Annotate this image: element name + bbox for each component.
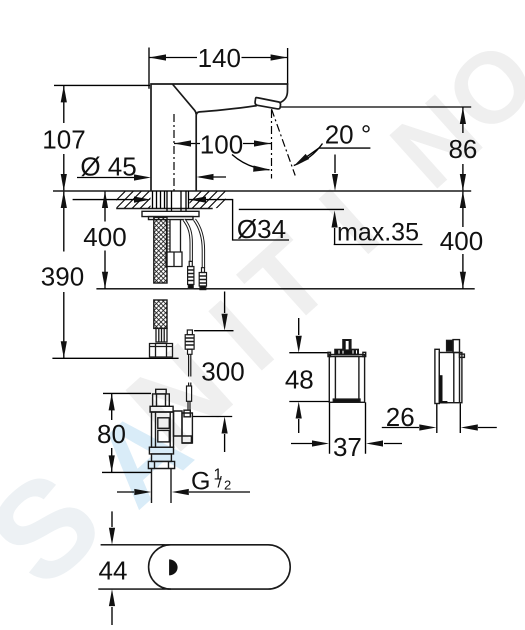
dimension 107 line [63,85,65,191]
20deg arc arrowheads [253,166,270,173]
faucet body centerline [173,114,175,191]
dimension 48 arrow lines [298,318,300,433]
dimension 80 bottom reference line [102,471,152,473]
dimension 26 arrow tails [382,427,497,429]
dimension 44 top reference line [101,544,171,546]
20deg angle arc right [294,144,323,166]
shank mounting nut [166,252,182,267]
svg-text:20 °: 20 ° [325,119,372,149]
dimension 400 left line [104,191,106,289]
dimension 37 arrow tails [291,443,402,445]
svg-text:26: 26 [386,402,415,432]
400 right arrows [460,191,466,208]
80 arrows [109,393,115,410]
svg-text:86: 86 [448,134,477,164]
Ø34 arrows [134,197,151,203]
G1/2 arrows [134,489,151,495]
control box 2 side view [435,340,465,404]
svg-text:400: 400 [440,226,483,256]
svg-text:80: 80 [97,419,126,449]
braided supply hose lower [154,300,167,328]
20deg underline and leader [297,148,370,164]
dimension 26 extension lines [437,404,461,434]
dimension 48 bottom reference line [289,401,330,403]
svg-text:48: 48 [285,365,314,395]
sensor cable with connector (300mm) [185,330,194,410]
dimension 80 line [111,393,113,472]
shank and hoses through deck hole [153,191,189,211]
label G 1/2 [191,467,231,496]
svg-text:Ø 45: Ø 45 [80,152,136,182]
svg-text:2: 2 [224,477,231,492]
svg-text:G: G [191,467,210,495]
dimension 48 top reference line [289,352,330,354]
solenoid valve assembly [148,389,192,503]
valve bottom nut [148,461,174,468]
dimension 400 right line [462,191,464,289]
G1/2 pipe [152,469,172,504]
faucet outline [151,84,288,191]
dimension 44 arrow lines [111,511,113,625]
deck / countertop [53,191,471,209]
dimension Ø34 arrow tails [73,200,289,240]
spout height reference line [281,106,472,108]
100 arrows [174,140,191,146]
dimension texts [41,43,483,586]
max.35 underline and arrow tail [334,228,423,245]
braided supply hose upper [150,217,173,357]
dimension 390 line [63,191,65,358]
valve body [152,412,174,447]
dimension 100 line [174,143,271,145]
deck hatching right [184,191,234,209]
centerlines dash-dot [174,109,295,191]
dimension 300 top reference line [194,330,233,332]
dimension 140 extension lines [149,48,288,89]
dimension 300 bottom reference line [192,416,233,418]
cable connector 1 [188,261,194,288]
G1/2 arrow tails [117,491,250,493]
valve top flange [150,406,173,412]
dimension Ø45 leader left [77,177,136,179]
arrowheads [61,54,478,606]
cable 1 [184,220,191,262]
washer plate under deck [142,211,199,219]
dimension 390 bottom reference line [52,357,178,359]
dimension 400 bottom reference line [96,288,474,290]
hose end fitting [150,328,173,357]
svg-text:300: 300 [201,357,244,387]
390 arrows [61,191,67,208]
svg-text:Ø34: Ø34 [237,214,286,244]
dimension 80 top reference line [103,392,151,394]
svg-text:/: / [218,475,223,492]
dimension 44 bottom reference line [98,588,171,590]
44 arrows [109,528,115,545]
valve bottom flange [149,447,173,454]
20deg angle arc left [232,155,270,170]
cable connector 2 [199,268,206,290]
spout nozzle [255,97,280,108]
37 arrows [312,440,329,446]
svg-text:107: 107 [42,125,85,155]
control box 1 front view [328,340,366,403]
deck top line [53,190,471,192]
svg-text:140: 140 [198,43,241,73]
dimension 107 top reference line [54,84,150,86]
deck bottom line [116,208,213,210]
faucet spout underside [196,106,257,191]
threaded shank below washer [166,220,182,267]
solenoid housing [174,411,183,436]
svg-text:max.35: max.35 [337,219,419,247]
sensor window dot [169,559,178,575]
dimension Ø45 leader right [199,176,226,178]
hose end nut [150,344,173,358]
max.35 deck bottom extension [239,208,344,210]
400 left arrows [102,191,108,208]
max.35 arrows [332,174,338,191]
svg-text:44: 44 [99,556,128,586]
26 arrows [419,424,436,430]
electrical cables below deck [184,220,203,268]
svg-text:100: 100 [200,130,243,160]
deck hatching left [108,191,166,209]
faucet neck diagonal [172,84,196,115]
48 arrows [296,336,302,353]
dimension 86 line [462,107,464,191]
107 arrows [61,85,67,102]
dimension 300 arrow lines [224,292,226,453]
86 arrows [460,107,466,124]
base plate top view (stadium) [149,545,291,589]
cable 2 [195,220,204,268]
20deg leader arrowhead [292,154,309,169]
svg-text:390: 390 [41,262,84,292]
Ø45 arrows [134,174,151,180]
300 arrows [222,314,228,331]
140 arrows [149,54,166,60]
svg-text:37: 37 [333,432,362,462]
dimension 37 extension lines [330,402,366,453]
faucet body [151,84,288,191]
nozzle 20deg angled centerline [272,109,296,176]
valve top fitting [156,389,167,394]
dimension 140 line [149,57,288,59]
svg-text:400: 400 [83,222,126,252]
nozzle vertical centerline [271,110,273,179]
max.35 down arrow line above deck [334,155,336,174]
